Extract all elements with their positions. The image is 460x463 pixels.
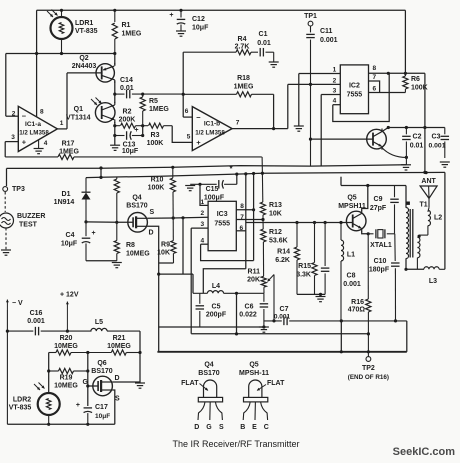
junction rail B [423, 171, 426, 174]
wire IC1-a output up to Q2 base [66, 73, 68, 129]
svg-text:6.2K: 6.2K [275, 257, 290, 264]
svg-text:+: + [76, 402, 80, 409]
label LDR1 [75, 20, 93, 27]
label 7555 IC3 [214, 221, 230, 228]
junction R1 bottom [113, 52, 116, 55]
resistor R21 [88, 350, 140, 355]
label R15 [298, 263, 311, 270]
label Q6 [97, 360, 106, 367]
svg-text:C1: C1 [259, 31, 268, 38]
label BUZZER [17, 213, 45, 220]
op-amp IC1-b [192, 107, 232, 151]
photoresistor LDR2 VT-835 [38, 393, 60, 424]
label C4 plus [92, 230, 96, 237]
label 1N914 [54, 199, 75, 206]
transistor Q2 2N4403 [96, 63, 115, 83]
inductor L4 [193, 291, 264, 294]
svg-text:0.01: 0.01 [410, 143, 424, 150]
svg-text:180pF: 180pF [369, 267, 390, 274]
junction T1 bottom [404, 268, 407, 271]
svg-text:53.6K: 53.6K [269, 238, 288, 245]
junction Q5 collector top [366, 184, 369, 187]
pin 1 IC3 [200, 199, 204, 206]
pin 2 IC2 [333, 77, 337, 84]
label R6 [411, 76, 420, 83]
svg-text:C2: C2 [413, 134, 422, 141]
label MPSH11 [338, 203, 366, 210]
label TP1 [304, 13, 317, 20]
svg-text:R13: R13 [269, 202, 282, 209]
wire D1 to gate [86, 221, 117, 223]
label L3 [429, 278, 437, 285]
capacitor C16 [7, 327, 91, 336]
svg-text:6: 6 [373, 86, 377, 93]
svg-text:1: 1 [333, 67, 337, 74]
capacitor C9 [390, 186, 399, 234]
junction pin7 R13 R12 [261, 218, 264, 221]
svg-text:R8: R8 [126, 242, 135, 249]
label IC1-a [25, 121, 41, 128]
junction L1 bottom [340, 319, 343, 322]
wire pin8 rail B column [253, 174, 255, 261]
svg-text:C8: C8 [347, 273, 356, 280]
junction pin8 vertical [252, 208, 255, 211]
watermark SeekIC.com [393, 446, 456, 458]
svg-text:D: D [194, 424, 199, 431]
label R2 [123, 109, 132, 116]
label L1 [347, 252, 355, 259]
label 10uF [192, 25, 209, 32]
wire IC3 pin6 stub [236, 230, 246, 232]
resistor R1 [112, 10, 117, 53]
svg-text:8: 8 [373, 65, 377, 72]
wire C15 to rail B [236, 174, 238, 184]
svg-text:IC1-a: IC1-a [25, 121, 41, 128]
svg-text:C: C [264, 424, 269, 431]
svg-text:200pF: 200pF [206, 312, 227, 319]
label 10uF C17 [95, 413, 110, 420]
junction LDR1 top [60, 9, 63, 12]
pin 6 IC2 [373, 86, 377, 93]
wire top-rail left drop [36, 10, 38, 53]
junction Q3 collector [387, 126, 390, 129]
svg-text:D: D [115, 375, 120, 382]
label 27pF [370, 205, 387, 212]
junction R13 rail B [261, 172, 264, 175]
label C12 plus [169, 12, 173, 19]
wire Q5 emitter down [362, 231, 369, 234]
svg-text:6: 6 [185, 108, 189, 115]
svg-text:C17: C17 [95, 404, 108, 411]
resistor R12 [261, 220, 266, 276]
label Q5 package [249, 362, 258, 369]
svg-text:8: 8 [240, 203, 244, 210]
label TP2 [362, 365, 375, 372]
junction Q3 emitter C2 ground [405, 156, 408, 159]
svg-text:VT1314: VT1314 [66, 115, 91, 122]
svg-text:3: 3 [11, 134, 15, 141]
wire node line y53 [6, 53, 115, 55]
resistor R20 [49, 350, 88, 355]
svg-text:R21: R21 [113, 335, 126, 342]
crystal XTAL1 [368, 229, 394, 238]
svg-text:100μF: 100μF [204, 194, 225, 201]
junction R19 right [86, 369, 89, 372]
svg-text:IC1-b: IC1-b [204, 121, 220, 128]
wire top V+ rail [37, 9, 406, 11]
svg-text:FLAT: FLAT [267, 380, 285, 387]
svg-text:C3: C3 [432, 134, 441, 141]
label FLAT Q4 [181, 380, 199, 387]
wire IC3 pin1 [200, 184, 208, 205]
label R21 [113, 335, 126, 342]
wire Q6 gate stub [88, 385, 98, 387]
svg-text:0.001: 0.001 [274, 313, 291, 320]
pin 2 [12, 111, 16, 118]
svg-text:R6: R6 [411, 76, 420, 83]
wire IC3 pin2 drop [182, 218, 184, 274]
junction mid bus [235, 332, 238, 335]
label 0.001 C8 [343, 281, 361, 288]
inductor L2 [419, 210, 430, 237]
svg-text:D1: D1 [62, 191, 71, 198]
pin 7 IC3 [240, 214, 244, 221]
capacitor C10 [391, 234, 400, 321]
svg-text:C7: C7 [280, 306, 289, 313]
label +12V [60, 292, 79, 299]
wire down to L4 line [192, 274, 194, 293]
svg-text:Q2: Q2 [79, 55, 88, 62]
label 10MEG R19 [54, 383, 78, 390]
svg-text:7555: 7555 [214, 221, 230, 228]
svg-text:+: + [134, 127, 138, 134]
junction TP1 line Q3 base [309, 138, 312, 141]
svg-text:TEST: TEST [19, 222, 38, 229]
svg-text:S: S [219, 424, 224, 431]
wire R3 to IC1-b pin 5 [172, 126, 192, 143]
label 0.01 C2 [410, 143, 424, 150]
label Q2 [79, 55, 88, 62]
wire C13 right riser [142, 126, 144, 136]
label ANT [421, 178, 436, 185]
wire to T1 primary [405, 186, 407, 208]
wire IC2 pin1 drop [298, 74, 300, 127]
wire Q4 drain drop [148, 226, 159, 351]
capacitor C2 [402, 128, 411, 165]
svg-text:VT-835: VT-835 [75, 28, 98, 35]
minus IC1-b [196, 113, 201, 122]
label 180pF [369, 267, 390, 274]
wire long bottom bus [157, 351, 406, 353]
svg-text:R14: R14 [277, 249, 290, 256]
wire IC2 pin3 [321, 94, 340, 96]
junction R11 wiper C7 [272, 319, 275, 322]
label C7 [280, 306, 289, 313]
wire Q4 gate [117, 221, 133, 223]
wire Q6 source drop [113, 390, 115, 424]
capacitor C6 [260, 293, 269, 327]
wire IC1-b output line [232, 128, 288, 130]
label 6.2K [275, 257, 290, 264]
svg-text:2: 2 [12, 111, 16, 118]
svg-text:4: 4 [333, 98, 337, 105]
wire C4 R8 bottom [86, 260, 117, 262]
pin S [219, 424, 224, 431]
junction TP1 line IC2 pin2 [309, 83, 312, 86]
label XTAL1 [370, 242, 392, 249]
label C13 plus [134, 127, 138, 134]
capacitor C12 [176, 10, 186, 36]
wire IC1-a pin3 stub [5, 141, 18, 143]
svg-text:10K: 10K [269, 211, 282, 218]
IC IC3 7555 [208, 201, 236, 250]
photoresistor LDR2 arrows [34, 383, 45, 391]
package drawing Q4 BS170 [198, 380, 223, 420]
label C2 [413, 134, 422, 141]
junction feedback node [182, 93, 185, 96]
label C5 [212, 304, 221, 311]
label R11 [248, 269, 261, 276]
junction C2 top [405, 126, 408, 129]
svg-text:470Ω: 470Ω [348, 307, 366, 314]
pin 8 [40, 109, 44, 116]
label S Q6 [115, 396, 120, 403]
resistor R18 [183, 92, 273, 97]
wire IC3 pin7 line [236, 219, 263, 221]
label 0.001 C11 [320, 37, 338, 44]
junction bottom node [319, 293, 322, 296]
label VT-835 LDR2 [9, 405, 32, 412]
svg-text:C16: C16 [30, 310, 43, 317]
svg-text:1: 1 [200, 199, 204, 206]
wire V+ right drop [424, 73, 426, 172]
wire T1 bottom line [406, 268, 424, 270]
junction C8 top [324, 221, 327, 224]
junction pin8 column [35, 52, 38, 55]
wire IC3 pin4 loop [201, 244, 254, 260]
wire IC2 pin4 loop [333, 73, 389, 121]
caption title [172, 439, 299, 449]
resistor R2 [115, 123, 148, 128]
svg-text:10MEG: 10MEG [54, 383, 78, 390]
ground rail A end [401, 165, 411, 170]
svg-text:R16: R16 [351, 299, 364, 306]
junction C15 rail B [235, 173, 238, 176]
wire rail A-B stub [100, 168, 102, 177]
svg-text:2: 2 [333, 77, 337, 84]
ground buzzer [1, 250, 11, 255]
label R20 [60, 335, 73, 342]
label TEST [19, 222, 38, 229]
svg-text:Q4: Q4 [204, 362, 213, 369]
junction R2 left [113, 124, 116, 127]
capacitor C15 [190, 180, 237, 189]
phototransistor Q1 VT1314 [95, 102, 115, 123]
junction R16 mid bus [367, 332, 370, 335]
label R4 [238, 36, 247, 43]
label end of R16 [348, 374, 389, 381]
svg-text:LDR1: LDR1 [75, 20, 93, 27]
junction TP2 bus [367, 350, 370, 353]
label Q1 [74, 106, 83, 113]
wire ground rail A [7, 165, 407, 169]
capacitor C13 [115, 131, 143, 140]
label 470ohm [348, 307, 366, 314]
wire IC2 pin2 [288, 83, 341, 85]
label D1 [62, 191, 71, 198]
svg-text:R20: R20 [60, 335, 73, 342]
wire IC2 pin1 [299, 73, 341, 75]
label TP3 [12, 186, 25, 193]
capacitor C1 [260, 48, 279, 67]
junction output R18 [272, 127, 275, 130]
junction R10 rail A [171, 166, 174, 169]
svg-text:7: 7 [373, 74, 377, 81]
label 10uF C4 [61, 241, 78, 248]
label C10 [374, 258, 387, 265]
svg-text:1N914: 1N914 [54, 199, 75, 206]
label R9 [161, 242, 170, 249]
arrow +12V [66, 302, 69, 332]
svg-text:R18: R18 [237, 75, 250, 82]
label LDR2 [13, 397, 31, 404]
resistor R8 [114, 222, 119, 260]
junction R2 right [141, 124, 144, 127]
svg-text:7555: 7555 [347, 92, 363, 99]
label 10MEG R20 [54, 343, 78, 350]
label BS170 package [198, 370, 220, 377]
svg-text:R9: R9 [161, 242, 170, 249]
resistor R14 [294, 223, 299, 295]
arrow minus V rail [6, 300, 9, 425]
junction C14 node [113, 93, 116, 96]
svg-text:−: − [22, 111, 27, 120]
ground under C13 node [110, 145, 120, 150]
resistor R13 [260, 157, 265, 220]
svg-text:ANT: ANT [421, 178, 436, 185]
label C13 [123, 141, 136, 148]
svg-text:L4: L4 [212, 283, 220, 290]
svg-text:D: D [149, 230, 154, 237]
svg-text:1MEG: 1MEG [149, 106, 169, 113]
label 1MEG R17 [59, 148, 79, 155]
label S Q4 [150, 209, 155, 216]
label C4 [66, 232, 75, 239]
label R17 [62, 141, 75, 148]
wire R18 to output [273, 94, 275, 129]
wire L1 col to bottom bus [340, 321, 342, 352]
svg-text:R12: R12 [269, 229, 282, 236]
svg-text:0.001: 0.001 [343, 281, 361, 288]
svg-text:10μF: 10μF [61, 241, 78, 248]
junction +12V line [66, 330, 69, 333]
T1 phasing dot [407, 202, 410, 205]
svg-text:2.7K: 2.7K [235, 44, 250, 51]
phototransistor Q1 arrows [91, 98, 102, 106]
junction L2 T1 secondary [418, 235, 421, 238]
label 53.6K [269, 238, 288, 245]
label C15 [206, 186, 219, 193]
svg-text:Q5: Q5 [347, 195, 356, 202]
svg-text:SeekIC.com: SeekIC.com [393, 446, 456, 458]
resistor R6 [403, 76, 408, 93]
label R19 [60, 375, 73, 382]
wire pin2 node line [159, 273, 193, 275]
svg-text:+ 12V: + 12V [60, 292, 79, 299]
label 2N4403 [72, 63, 97, 70]
label Q4 [132, 195, 141, 202]
transformer T1 primary [406, 208, 409, 259]
svg-text:C14: C14 [120, 77, 133, 84]
svg-text:R2: R2 [123, 109, 132, 116]
buzzer dashed lead top [4, 192, 6, 212]
test point TP2 [366, 352, 371, 362]
label G Q6 [83, 379, 89, 386]
wire Q3 collector link [382, 128, 388, 132]
svg-text:1/2 LM358: 1/2 LM358 [195, 130, 225, 137]
wire C7 line right drop [406, 321, 408, 352]
pin C [264, 424, 269, 431]
label R18 [237, 75, 250, 82]
svg-text:MPSH-11: MPSH-11 [239, 370, 269, 377]
resistor R15 [312, 223, 317, 295]
label C3 [432, 134, 441, 141]
svg-text:0.001: 0.001 [27, 318, 45, 325]
svg-text:R15: R15 [298, 263, 311, 270]
wire transmitter inner top [341, 185, 406, 187]
label C9 [374, 196, 383, 203]
svg-text:C10: C10 [374, 258, 387, 265]
svg-text:0.001: 0.001 [428, 143, 445, 150]
svg-text:(END OF R16): (END OF R16) [348, 374, 389, 381]
junction drain col pin2 line [157, 273, 160, 276]
label R1 [122, 22, 131, 29]
wire Q1 emitter stub [114, 122, 116, 126]
svg-text:20K: 20K [247, 277, 260, 284]
junction source R10 R9 [172, 216, 175, 219]
pin G [206, 424, 212, 431]
pin 1 [60, 120, 64, 127]
wire pin6 rail column [245, 174, 247, 269]
junction R20 R21 [86, 351, 89, 354]
pin 7 IC2 [373, 74, 377, 81]
label C14 [120, 77, 133, 84]
label 3.3K [296, 272, 311, 279]
label 1MEG [122, 31, 142, 38]
svg-text:BS170: BS170 [91, 368, 113, 375]
svg-text:BUZZER: BUZZER [17, 213, 45, 220]
wire IC1-a pin2 stub [6, 115, 18, 117]
pin 5 IC1-b [187, 134, 191, 141]
label 2.7K [235, 44, 250, 51]
wire C13 left riser [114, 126, 116, 145]
svg-text:C6: C6 [245, 304, 254, 311]
junction pin2 loop tap [181, 216, 184, 219]
resistor R7 [114, 177, 119, 223]
photoresistor LDR1 arrows [47, 10, 58, 18]
capacitor C7 [264, 317, 407, 326]
svg-text:+: + [196, 138, 201, 147]
svg-text:10μF: 10μF [192, 25, 209, 32]
label 10K R13 [269, 211, 282, 218]
wire mid bus [191, 333, 368, 335]
wire left rail to IC1-a pin2 [5, 54, 7, 117]
label R10 [151, 177, 164, 184]
wire feedback left column [182, 52, 184, 117]
svg-text:10K: 10K [157, 250, 170, 257]
wire IC1-b pin6 stub [183, 116, 192, 118]
svg-text:1/2 LM358: 1/2 LM358 [19, 130, 49, 137]
